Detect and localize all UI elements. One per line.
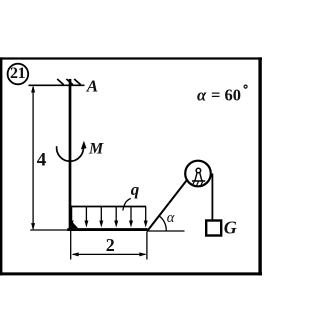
support hatching xyxy=(57,79,80,85)
rope right vertical segment xyxy=(211,174,213,220)
svg-text:α: α xyxy=(167,210,175,226)
support top line xyxy=(29,84,85,86)
svg-text:α: α xyxy=(197,85,207,104)
svg-text:21: 21 xyxy=(10,65,26,82)
angle alpha arc xyxy=(159,216,166,231)
corner fillet xyxy=(71,221,78,229)
svg-text:M: M xyxy=(88,141,104,158)
border frame xyxy=(0,57,262,275)
problem number badge 21 xyxy=(8,64,29,85)
q leader line xyxy=(123,199,131,211)
svg-text:q: q xyxy=(131,180,140,199)
svg-text:G: G xyxy=(224,218,237,238)
load arrow 6 xyxy=(144,207,148,228)
load arrow 4 xyxy=(114,207,118,228)
left extension line xyxy=(70,231,72,260)
horizontal reference line at beam end xyxy=(147,230,184,232)
rope left segment xyxy=(147,179,188,231)
pulley wheel xyxy=(185,161,211,187)
moment M arc xyxy=(57,141,87,161)
right extension line xyxy=(146,232,148,260)
svg-text:4: 4 xyxy=(37,149,47,170)
load arrow 3 xyxy=(99,207,103,228)
dimension 2 line xyxy=(72,252,147,256)
pulley pin circle xyxy=(196,168,201,173)
beam xyxy=(67,228,147,231)
pin legs xyxy=(195,172,202,181)
svg-text:= 60: = 60 xyxy=(211,85,241,104)
dimension 4 vertical line xyxy=(31,85,35,230)
thin baseline left xyxy=(30,229,68,231)
svg-text:2: 2 xyxy=(106,235,115,255)
load arrow 5 xyxy=(129,207,133,228)
pin base line xyxy=(192,180,205,182)
weight G box xyxy=(206,221,221,236)
pin hatches xyxy=(193,181,203,185)
vertical bar xyxy=(69,79,72,231)
angle value text xyxy=(197,85,247,104)
load arrow 2 xyxy=(84,207,88,228)
distributed load top line xyxy=(71,206,146,208)
load arrow 1 xyxy=(70,207,74,228)
svg-text:A: A xyxy=(86,77,98,96)
